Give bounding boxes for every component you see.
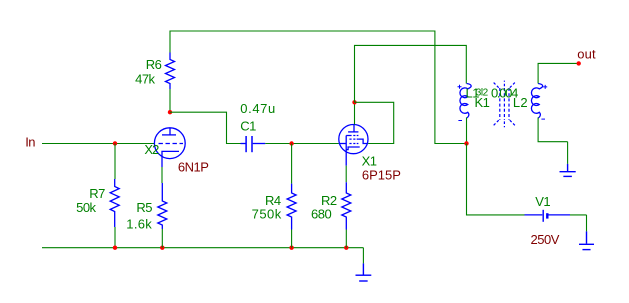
wire junction to V1 <box>467 144 525 215</box>
wire R5 bottom <box>161 229 163 248</box>
resistor R7 <box>110 179 119 227</box>
svg-text:V1: V1 <box>535 194 550 209</box>
tube X2 circle <box>154 128 185 159</box>
transformer core <box>500 88 509 120</box>
junction R5-gnd <box>160 246 164 250</box>
svg-text:K1: K1 <box>475 95 490 110</box>
X1 plate lead <box>353 125 355 132</box>
X1 grid3 dashes <box>346 135 358 137</box>
wire R2 bottom <box>345 230 347 248</box>
wire X2 cathode to R5 <box>161 167 163 183</box>
junction L1/V1 node <box>464 141 468 145</box>
resistor R4 <box>287 184 296 230</box>
wire V1 to ground <box>570 214 587 216</box>
resistor R6 <box>166 53 175 90</box>
wire B+ rail top <box>170 31 467 144</box>
wire L1 bottom to junction <box>466 118 468 144</box>
X1 grid1 dashes <box>349 143 358 145</box>
svg-text:X2: X2 <box>144 142 159 157</box>
svg-text:In: In <box>25 134 35 149</box>
X1 grid2 dashes <box>349 138 358 140</box>
X1 plate <box>348 131 358 133</box>
wire R7 bottom <box>114 227 116 248</box>
wire R4 bottom <box>291 230 293 248</box>
wire X1 cathode to R2 <box>345 166 347 183</box>
L1 minus <box>458 120 462 122</box>
L2 plus <box>543 85 547 89</box>
junction In node <box>113 141 117 145</box>
transformer K1 winding L1 <box>460 84 471 119</box>
wire plate rail to L1 <box>355 45 467 102</box>
junction R7-gnd <box>113 246 117 250</box>
svg-text:0.47u: 0.47u <box>240 101 276 116</box>
wire L2 bottom to ground <box>538 118 568 142</box>
svg-text:out: out <box>577 47 596 62</box>
svg-text:L2: L2 <box>513 95 528 110</box>
X2 plate lead <box>169 128 171 135</box>
wire screen loop <box>355 102 394 143</box>
node In / input wire <box>42 143 154 145</box>
X1 grid wire inside <box>339 143 346 145</box>
svg-text:680: 680 <box>311 207 331 222</box>
svg-text:R7: R7 <box>89 186 105 201</box>
X2 cathode <box>162 151 179 167</box>
junction X2 plate node <box>168 110 172 114</box>
resistor R2 <box>342 182 351 229</box>
capacitor C1 <box>241 143 246 145</box>
ground L2 <box>567 142 569 164</box>
core flare dashes <box>493 81 516 128</box>
svg-text:50k: 50k <box>76 200 96 215</box>
X2 grid (dashed) <box>159 143 184 145</box>
svg-text:750k: 750k <box>252 207 282 222</box>
ground main <box>362 248 364 264</box>
battery V1 <box>525 214 543 216</box>
svg-text:1.6k: 1.6k <box>126 217 152 232</box>
svg-text:R6: R6 <box>146 57 162 72</box>
junction grid node <box>289 141 293 145</box>
svg-text:47k: 47k <box>135 71 155 86</box>
junction R4-gnd <box>289 246 293 250</box>
resistor R5 <box>158 183 167 229</box>
L2 minus <box>541 118 545 120</box>
ground V1 <box>586 215 588 232</box>
wire R4 top <box>291 144 293 184</box>
svg-text:6P15P: 6P15P <box>362 168 401 183</box>
X1 grid2 tie to screen <box>358 139 368 143</box>
wire ground rail <box>42 247 363 249</box>
transformer K1 winding L2 <box>531 84 542 119</box>
wire C1 to X1 grid <box>265 143 339 145</box>
junction R2-gnd <box>344 246 348 250</box>
wire X2 plate node to C1 <box>170 112 241 143</box>
X2 plate <box>162 134 176 136</box>
svg-text:R5: R5 <box>136 200 152 215</box>
wire L2 top to out <box>538 63 579 83</box>
wire R6 bottom <box>169 89 171 112</box>
svg-text:C1: C1 <box>240 119 256 134</box>
svg-text:6N1P: 6N1P <box>178 159 209 174</box>
X1 cathode <box>346 147 360 150</box>
wire X1 plate up <box>354 102 356 124</box>
tube X1 circle <box>339 125 368 154</box>
X1 grid1 left rail <box>345 136 347 166</box>
wire R7 top <box>114 144 116 180</box>
svg-text:250V: 250V <box>531 232 560 247</box>
L1 plus <box>458 85 462 89</box>
svg-text:X1: X1 <box>362 153 377 168</box>
node out <box>577 61 581 65</box>
junction X1 plate node <box>352 100 356 104</box>
